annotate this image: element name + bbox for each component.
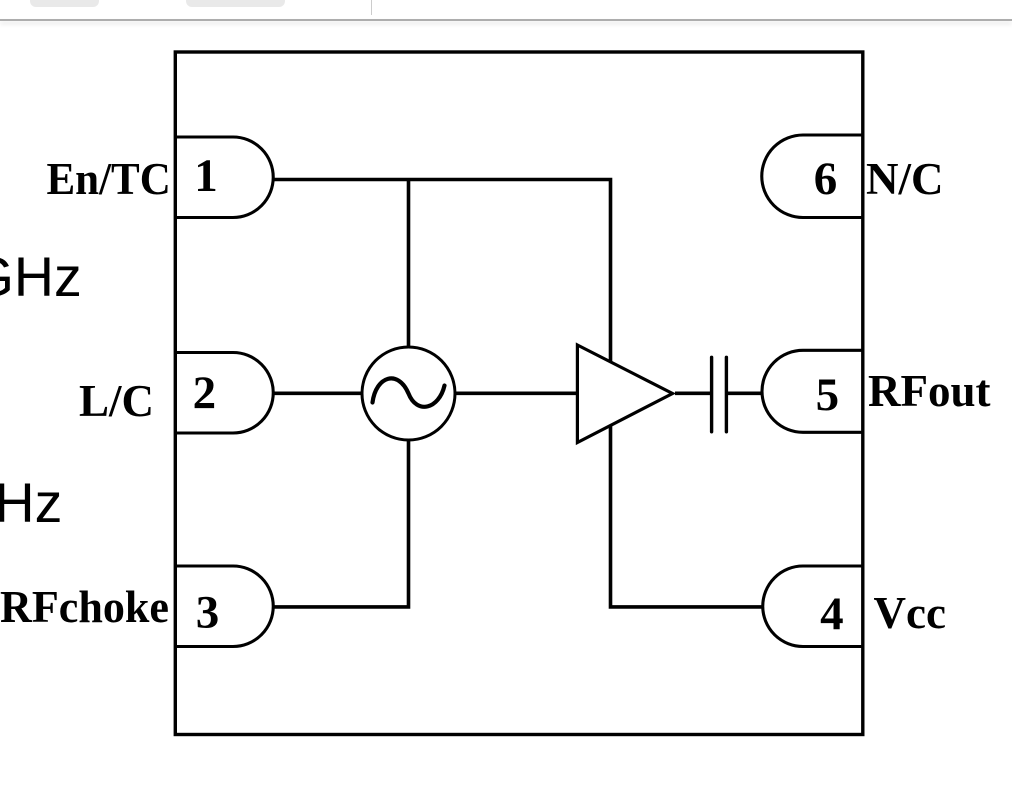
svg-text:L/C: L/C [79,376,154,426]
svg-text:Vcc: Vcc [874,588,946,638]
svg-text:GHz: GHz [0,246,82,308]
svg-text:N/C: N/C [866,154,944,204]
svg-text:3: 3 [196,586,220,638]
svg-text:4: 4 [820,588,844,640]
svg-text:Hz: Hz [0,472,62,534]
svg-text:6: 6 [814,153,838,205]
svg-text:1: 1 [194,150,218,202]
svg-text:2: 2 [193,367,217,419]
svg-text:5: 5 [816,369,840,421]
svg-text:RFchoke: RFchoke [0,582,169,632]
svg-text:En/TC: En/TC [47,154,171,204]
svg-text:RFout: RFout [868,366,991,416]
